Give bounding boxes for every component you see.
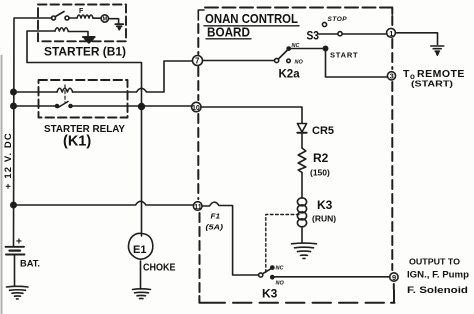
mech link dotted K3 <box>266 215 299 273</box>
terminal 11 <box>193 202 202 211</box>
wire <box>301 228 303 242</box>
terminal 3 <box>387 72 395 80</box>
node: bus to F1 line junction <box>11 202 16 207</box>
svg-text:F. Solenoid: F. Solenoid <box>407 285 468 295</box>
wire: +12V left bus from B1 switch down to battery <box>14 18 53 246</box>
chassis ground in B1 <box>83 36 95 38</box>
terminal 7 <box>193 56 203 66</box>
svg-text:NO: NO <box>295 60 304 66</box>
svg-text:S3: S3 <box>307 31 320 43</box>
ground under K3 <box>292 242 317 245</box>
ground arrow for motor <box>115 23 123 25</box>
diode CR5 <box>297 124 306 133</box>
svg-text:7: 7 <box>195 57 200 66</box>
switch in B1 <box>52 16 56 20</box>
Onan control board dashed border: top <box>205 7 385 9</box>
mech link dashed <box>64 85 66 102</box>
wire: bus to K1 coil <box>14 91 58 93</box>
motor M in B1 <box>101 15 108 22</box>
svg-text:3: 3 <box>390 72 394 81</box>
svg-text:F1: F1 <box>211 214 221 221</box>
wire: terminal 10 to CR5 column <box>201 107 302 123</box>
wire <box>109 19 119 24</box>
wire <box>301 133 303 148</box>
svg-text:1: 1 <box>389 29 393 38</box>
svg-text:E1: E1 <box>133 244 146 256</box>
ground at terminal 1 <box>431 45 444 47</box>
svg-text:(150): (150) <box>310 168 330 178</box>
wire: terminal 11 through fuse F1 down to K3 switch <box>202 202 258 275</box>
switch K3 <box>259 273 263 277</box>
svg-text:OUTPUT TO: OUTPUT TO <box>409 258 460 267</box>
svg-text:9: 9 <box>392 273 396 282</box>
ground under battery <box>7 285 29 288</box>
terminal 1 <box>387 28 396 37</box>
border: right side <box>391 16 393 26</box>
starter B1 dashed box <box>38 5 126 42</box>
wire: center vertical to choke <box>141 107 143 237</box>
border: left side <box>197 24 199 54</box>
svg-text:STARTER (B1): STARTER (B1) <box>44 47 126 59</box>
svg-text:STOP: STOP <box>328 16 348 23</box>
svg-text:(RUN): (RUN) <box>312 214 336 224</box>
svg-text:11: 11 <box>194 204 202 211</box>
field coil F in B1 <box>77 15 93 18</box>
node: bus to K1 switch junction <box>11 103 16 108</box>
wire <box>140 261 142 289</box>
svg-text:10: 10 <box>192 105 200 112</box>
node: start junction <box>323 46 327 50</box>
choke E1 <box>128 233 152 259</box>
wire: terminal 7 to K2a <box>203 60 275 62</box>
resistor R2 <box>298 148 306 173</box>
terminal 10 <box>192 102 201 111</box>
switch in K1 <box>56 105 59 108</box>
relay coil K3 <box>297 198 306 206</box>
border: bottom <box>207 302 392 304</box>
node: center junction <box>139 104 145 110</box>
wire: terminal 1 to ground <box>396 33 438 45</box>
wire <box>93 17 101 19</box>
relay coil K1 <box>57 88 73 92</box>
scanner edge band <box>1 55 3 314</box>
wire <box>69 17 77 19</box>
switch K2a <box>275 58 279 62</box>
svg-text:IGN., F. Pump: IGN., F. Pump <box>407 270 470 280</box>
svg-text:+ 12 V. DC: + 12 V. DC <box>3 132 14 189</box>
ground under choke <box>133 288 151 291</box>
border corner top-left <box>198 10 204 20</box>
svg-text:(5A): (5A) <box>206 223 224 232</box>
svg-text:F: F <box>79 8 84 15</box>
svg-text:K3: K3 <box>317 198 333 212</box>
svg-text:K3: K3 <box>262 287 278 301</box>
svg-text:CHOKE: CHOKE <box>143 262 176 274</box>
svg-text:K2a: K2a <box>279 69 301 81</box>
svg-text:T: T <box>403 68 410 80</box>
svg-text:M: M <box>103 17 108 23</box>
solenoid coil row in B1 <box>55 28 68 31</box>
wire: bus to terminal 11 with crossover hump <box>14 201 194 205</box>
wire <box>68 32 88 37</box>
svg-text:ONAN CONTROL: ONAN CONTROL <box>205 12 298 26</box>
wire: K3 NO to terminal 9 <box>274 276 389 278</box>
svg-text:BAT.: BAT. <box>20 259 40 270</box>
svg-text:(START): (START) <box>411 79 453 89</box>
wire: B1 coil loop down and across to center node <box>27 31 142 107</box>
svg-text:NC: NC <box>276 266 285 272</box>
svg-text:R2: R2 <box>313 151 329 165</box>
svg-text:START: START <box>330 51 358 60</box>
node: bus to K1 coil junction <box>11 89 16 94</box>
wire: K1 coil out with crossover hump, up to terminal 7 <box>73 61 193 92</box>
svg-text:CR5: CR5 <box>312 125 334 137</box>
svg-text:(K1): (K1) <box>63 134 91 150</box>
terminal 9 <box>390 273 398 281</box>
wire: K2a NC to start node, down, to terminal 3 <box>290 49 387 78</box>
wire: K1 switch to node and terminal 10 <box>72 105 192 107</box>
svg-text:BOARD: BOARD <box>207 26 250 40</box>
starter relay K1 dashed box <box>39 80 128 118</box>
wire <box>301 173 303 199</box>
wire: bus to K1 switch <box>14 105 57 107</box>
